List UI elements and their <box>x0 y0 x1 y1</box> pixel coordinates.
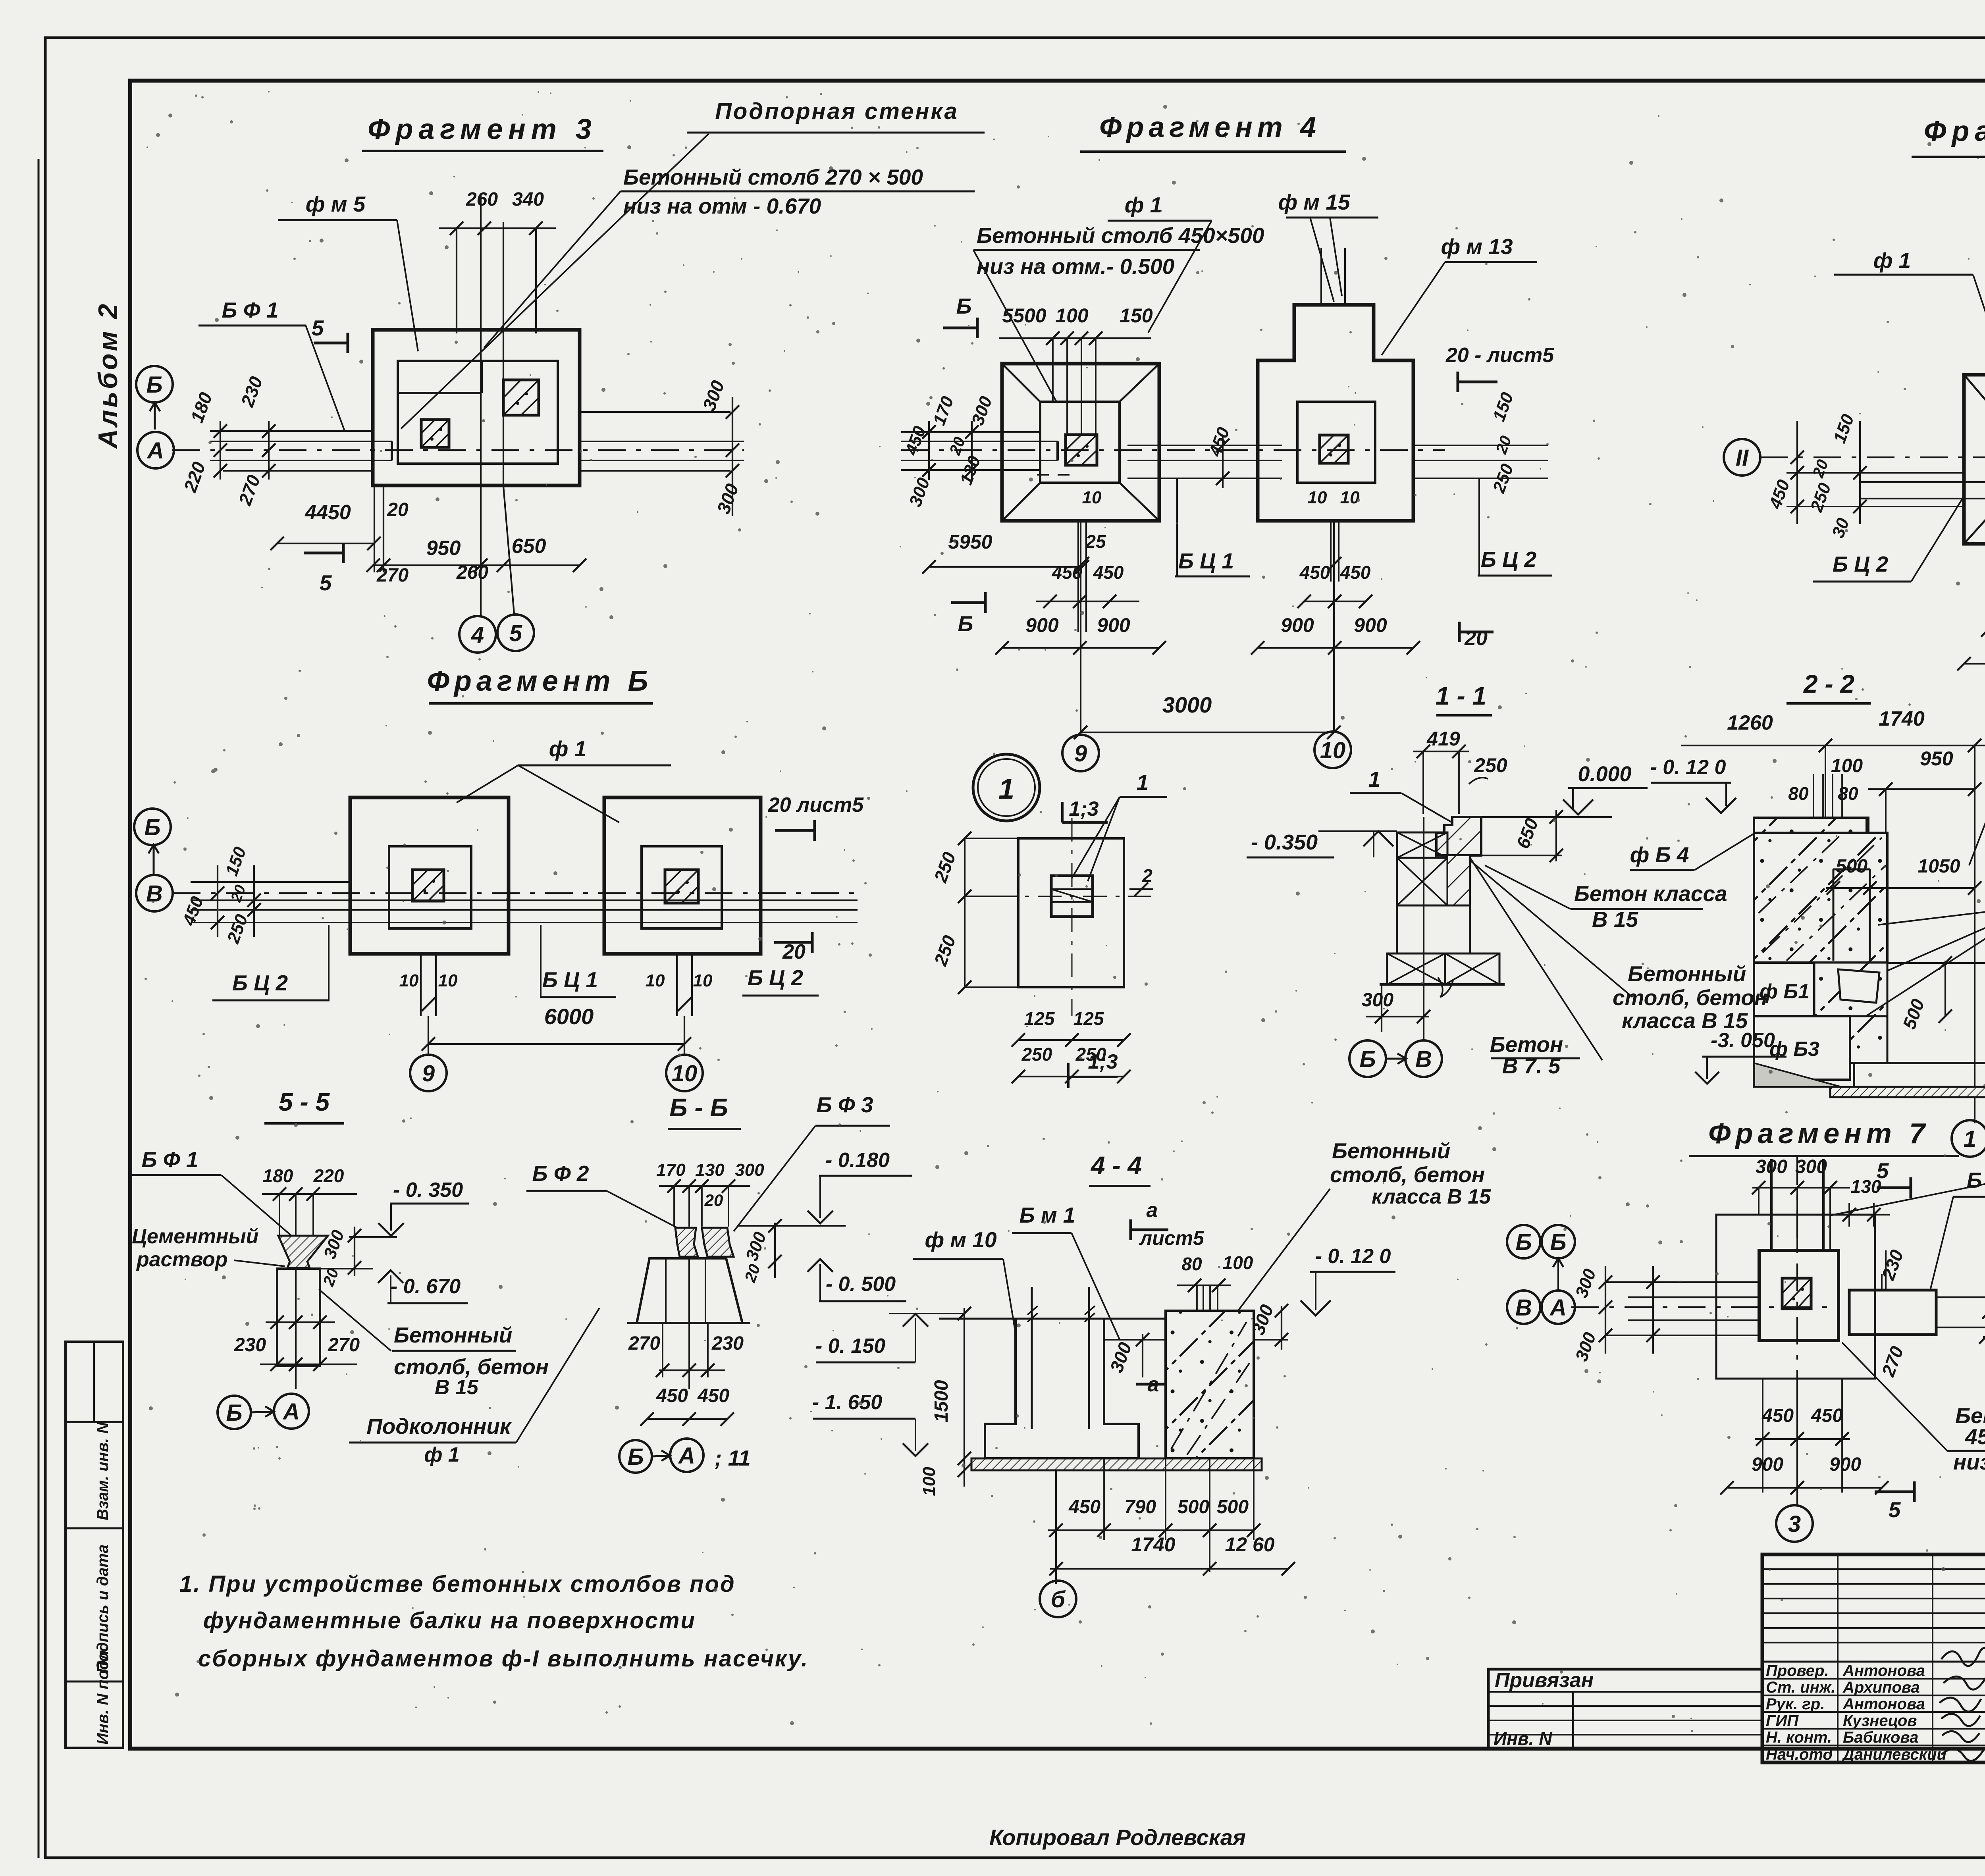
chamfer inner <box>1040 402 1120 483</box>
svg-text:500: 500 <box>1836 856 1867 877</box>
svg-text:80: 80 <box>1838 783 1858 804</box>
svg-text:10: 10 <box>1308 488 1327 507</box>
right dim 300 300 <box>732 397 733 516</box>
svg-text:419: 419 <box>1426 728 1460 750</box>
svg-text:-3. 050: -3. 050 <box>1711 1029 1775 1052</box>
base slab <box>971 1458 1262 1470</box>
svg-text:Инв. N: Инв. N <box>1494 1728 1552 1749</box>
svg-text:3000: 3000 <box>1162 692 1212 717</box>
beam right <box>1413 445 1548 446</box>
svg-text:Инв. N подл.: Инв. N подл. <box>94 1646 112 1745</box>
right beam lines <box>580 411 730 413</box>
svg-text:Б - Б: Б - Б <box>669 1093 728 1122</box>
svg-text:Б Ф 2: Б Ф 2 <box>532 1161 589 1186</box>
wall top slab <box>1754 818 1867 833</box>
svg-text:230: 230 <box>711 1333 744 1354</box>
axis circle 10 <box>666 1055 703 1091</box>
axis A dash <box>901 449 1445 451</box>
pad <box>1782 1278 1811 1309</box>
svg-text:300: 300 <box>1362 990 1393 1011</box>
circles Б В <box>1349 1040 1386 1077</box>
svg-text:100: 100 <box>1055 304 1089 327</box>
bottom hatched strip <box>1830 1087 1985 1097</box>
svg-text:450: 450 <box>1299 562 1330 583</box>
svg-text:180: 180 <box>263 1165 293 1186</box>
dash-dot overlay <box>1763 838 1882 953</box>
middle beam БЦ1 <box>1127 445 1282 446</box>
svg-text:В: В <box>1415 1046 1432 1072</box>
svg-text:Архипова: Архипова <box>1842 1679 1920 1696</box>
svg-text:Фрагмент Б: Фрагмент Б <box>427 665 653 697</box>
svg-text:20 - лист5: 20 - лист5 <box>1445 344 1554 367</box>
svg-text:10: 10 <box>693 971 713 990</box>
svg-text:450: 450 <box>1052 562 1083 583</box>
plan outer square <box>373 330 580 485</box>
dim ticks left <box>1605 1266 1606 1354</box>
svg-text:Б Ф 3: Б Ф 3 <box>816 1092 873 1117</box>
svg-text:450 × 500: 450 × 500 <box>1965 1424 1985 1449</box>
svg-text:ГИП: ГИП <box>1766 1712 1799 1730</box>
pad <box>1066 435 1097 465</box>
column pad B <box>503 380 539 415</box>
svg-text:Бетонный столб 450×500: Бетонный столб 450×500 <box>977 223 1264 248</box>
svg-text:Б: Б <box>956 294 972 318</box>
svg-text:Бетонный: Бетонный <box>1628 961 1746 986</box>
svg-text:фундаментные балки на п: фундаментные балки на поверхности <box>203 1608 696 1633</box>
inner slot lines <box>1833 869 1835 961</box>
svg-text:раствор: раствор <box>136 1248 227 1271</box>
svg-text:1500: 1500 <box>931 1380 952 1422</box>
svg-text:170: 170 <box>656 1160 686 1180</box>
svg-text:Б Ц 2: Б Ц 2 <box>1833 552 1889 576</box>
svg-text:ф 1: ф 1 <box>1125 193 1162 217</box>
beam shoe hatched <box>278 1236 328 1268</box>
svg-text:Фрагмент 4: Фрагмент 4 <box>1099 112 1321 143</box>
svg-text:- 1. 650: - 1. 650 <box>812 1391 882 1414</box>
axis line 4 <box>480 195 482 615</box>
svg-text:лист5: лист5 <box>1139 1227 1204 1249</box>
svg-text:А: А <box>146 438 164 464</box>
svg-text:Ст. инж.: Ст. инж. <box>1766 1679 1835 1696</box>
svg-text:ф м 5: ф м 5 <box>306 192 366 216</box>
svg-text:Б Ф 1: Б Ф 1 <box>141 1147 198 1172</box>
main title block <box>1762 1554 1985 1762</box>
leader to column pad <box>484 191 621 348</box>
right plan square <box>604 797 761 954</box>
beam lines <box>191 881 350 883</box>
svg-text:10: 10 <box>1320 738 1346 763</box>
ФБ1 white block <box>1754 963 1814 1016</box>
svg-text:ф 1: ф 1 <box>549 736 587 761</box>
svg-text:3: 3 <box>1788 1511 1801 1537</box>
left stamp boxes <box>66 1342 123 1748</box>
axis circle 11 <box>1724 439 1760 476</box>
axis circle Б <box>136 366 173 403</box>
leader <box>973 250 1056 401</box>
svg-text:10: 10 <box>1082 488 1102 507</box>
dim line mid <box>266 1321 335 1323</box>
svg-text:столб, бетон: столб, бетон <box>1613 985 1767 1010</box>
left rotated dims 150 450 20 250 <box>217 865 218 937</box>
leader to retaining wall <box>401 134 709 429</box>
svg-text:Бетонный: Бетонный <box>394 1323 512 1347</box>
svg-text:260: 260 <box>456 562 488 583</box>
svg-text:900: 900 <box>1025 614 1059 636</box>
svg-text:Б Ц 2: Б Ц 2 <box>232 971 288 995</box>
svg-text:ф м 15: ф м 15 <box>1278 190 1350 214</box>
svg-text:Антонова: Антонова <box>1842 1662 1925 1680</box>
axis circles Б Б В А <box>1507 1225 1540 1258</box>
axis circle 9 <box>1080 732 1081 734</box>
svg-text:260: 260 <box>466 189 498 210</box>
svg-text:Альбом 2: Альбом 2 <box>93 302 123 449</box>
svg-text:20: 20 <box>782 940 806 963</box>
svg-text:а: а <box>1147 1199 1158 1222</box>
break squiggle <box>1438 977 1453 997</box>
svg-text:5 - 5: 5 - 5 <box>279 1088 330 1116</box>
svg-text:Б: Б <box>958 611 973 636</box>
svg-text:250: 250 <box>1021 1044 1052 1065</box>
svg-text:10: 10 <box>399 971 419 990</box>
svg-text:Бабикова: Бабикова <box>1843 1729 1918 1746</box>
wall stub lines <box>1320 248 1322 305</box>
beam from left <box>1605 1281 1759 1283</box>
left beam dims 180 230 220 270 <box>220 421 221 480</box>
circle 3 <box>1796 1381 1798 1505</box>
svg-text:270: 270 <box>328 1335 360 1356</box>
pad <box>1320 435 1348 463</box>
svg-text:450: 450 <box>1068 1497 1100 1518</box>
svg-text:- 0. 12 0: - 0. 12 0 <box>1650 756 1726 779</box>
svg-text:1: 1 <box>1368 767 1381 792</box>
outer rect <box>1716 1215 1875 1379</box>
svg-text:- 0. 150: - 0. 150 <box>815 1335 885 1358</box>
svg-text:сборных фундаментов ф: сборных фундаментов ф-I выполнить насечк… <box>198 1646 809 1672</box>
left foundation outer <box>1002 364 1159 521</box>
svg-text:Копировал Родлевская: Копировал Родлевская <box>989 1825 1246 1850</box>
svg-text:Привязан: Привязан <box>1495 1669 1594 1692</box>
middle plain block <box>1397 905 1470 953</box>
axis B dash <box>173 892 858 894</box>
circle б <box>1040 1581 1076 1617</box>
svg-text:1: 1 <box>1964 1126 1976 1152</box>
axis vertical <box>1423 817 1424 1040</box>
svg-text:ф 1: ф 1 <box>424 1443 459 1466</box>
svg-text:250: 250 <box>1474 754 1507 776</box>
right foundation outline with stub <box>1258 305 1413 521</box>
svg-text:6000: 6000 <box>544 1004 594 1029</box>
svg-text:1740: 1740 <box>1131 1533 1175 1556</box>
sand wedge <box>1754 1063 1841 1087</box>
rebar dowels <box>1031 1287 1033 1429</box>
privyazan table <box>1488 1669 1762 1749</box>
svg-text:- 0.350: - 0.350 <box>1251 830 1318 854</box>
svg-text:Б Ц 1: Б Ц 1 <box>1178 549 1234 573</box>
svg-text:столб, бетон: столб, бетон <box>394 1354 549 1379</box>
hatched column <box>1166 1311 1254 1458</box>
svg-text:950: 950 <box>426 537 461 560</box>
svg-text:4450: 4450 <box>304 501 351 524</box>
svg-text:4 - 4: 4 - 4 <box>1090 1151 1142 1180</box>
svg-text:В: В <box>1515 1295 1532 1321</box>
column pad A <box>421 420 449 447</box>
svg-text:Фрагмент 5: Фрагмент 5 <box>1924 116 1985 147</box>
svg-text:80: 80 <box>1181 1254 1202 1274</box>
axis A dash line <box>172 449 744 451</box>
circles Б А <box>218 1396 251 1429</box>
svg-text:Б Ц 2: Б Ц 2 <box>1481 547 1537 572</box>
svg-text:1. При устройстве бетонных: 1. При устройстве бетонных столбов под <box>179 1571 736 1597</box>
svg-text:; 11: ; 11 <box>715 1446 751 1470</box>
svg-text:низ на отм.- 0.670: низ на отм.- 0.670 <box>1953 1450 1985 1474</box>
beam from left <box>901 431 1040 433</box>
axis dash vertical <box>1796 1157 1798 1381</box>
svg-text:Рук. гр.: Рук. гр. <box>1766 1695 1825 1713</box>
svg-text:Б ф 1: Б ф 1 <box>1967 1168 1985 1192</box>
svg-text:1;3: 1;3 <box>1069 797 1098 821</box>
svg-text:130: 130 <box>1851 1176 1881 1197</box>
svg-text:790: 790 <box>1124 1497 1156 1518</box>
bottom footing <box>1854 1063 1985 1087</box>
svg-text:А: А <box>678 1443 695 1469</box>
footing X blocks <box>1387 953 1445 984</box>
svg-text:Фрагмент 3: Фрагмент 3 <box>368 114 597 145</box>
ground top line <box>939 1318 1166 1320</box>
svg-text:Б: Б <box>1550 1229 1566 1255</box>
axis circle 4 <box>459 616 496 653</box>
svg-text:1: 1 <box>1137 770 1149 795</box>
svg-text:Данилевский: Данилевский <box>1842 1746 1946 1763</box>
svg-text:125: 125 <box>1073 1008 1104 1029</box>
svg-text:Бетон: Бетон <box>1490 1032 1563 1057</box>
svg-text:900: 900 <box>1354 614 1387 636</box>
form box <box>985 1318 1139 1458</box>
center lines <box>1072 818 1073 1016</box>
node 1 big circle <box>973 754 1040 821</box>
svg-text:10: 10 <box>672 1061 698 1086</box>
svg-text:Бетон класса: Бетон класса <box>1574 881 1727 906</box>
svg-text:б: б <box>1051 1587 1066 1612</box>
svg-text:Провер.: Провер. <box>1766 1662 1829 1680</box>
beam end cross-section <box>1051 876 1093 917</box>
svg-text:1: 1 <box>998 773 1014 805</box>
svg-text:Бетонный столб 270 × 500: Бетонный столб 270 × 500 <box>623 165 923 189</box>
svg-text:Нач.отд: Нач.отд <box>1766 1746 1833 1763</box>
svg-text:125: 125 <box>1024 1008 1055 1029</box>
svg-text:5: 5 <box>312 316 324 340</box>
signatures squiggles <box>1939 1648 1985 1761</box>
plan outer <box>1964 375 1985 544</box>
svg-text:130: 130 <box>695 1160 725 1180</box>
svg-text:450: 450 <box>1340 562 1371 583</box>
svg-text:9: 9 <box>422 1061 435 1086</box>
inner square <box>1297 402 1375 483</box>
svg-text:20: 20 <box>1464 627 1488 650</box>
svg-text:0.000: 0.000 <box>1578 762 1631 786</box>
svg-text:1050: 1050 <box>1918 856 1960 877</box>
svg-text:500: 500 <box>1217 1497 1249 1518</box>
svg-text:900: 900 <box>1829 1454 1861 1475</box>
svg-text:450: 450 <box>1093 562 1124 583</box>
circle 1 below <box>1974 1120 1975 1123</box>
svg-text:ф 1: ф 1 <box>1873 248 1911 273</box>
svg-text:Б Ц 1: Б Ц 1 <box>542 967 598 992</box>
svg-text:Б: Б <box>627 1444 644 1470</box>
left rotated dims <box>1796 421 1798 524</box>
shoes hatched <box>675 1228 698 1257</box>
svg-text:5: 5 <box>509 620 522 646</box>
svg-text:Цементный: Цементный <box>132 1225 258 1248</box>
svg-text:Б м 1: Б м 1 <box>1019 1203 1075 1227</box>
svg-text:- 0. 350: - 0. 350 <box>393 1179 463 1202</box>
svg-text:450: 450 <box>697 1385 729 1406</box>
svg-text:Н. конт.: Н. конт. <box>1766 1729 1832 1746</box>
big leader diagonal <box>1470 858 1602 1060</box>
axis circle 10 <box>1333 731 1335 732</box>
svg-text:2 - 2: 2 - 2 <box>1803 670 1854 698</box>
beam БФ1 lines <box>210 430 374 432</box>
X block 1 <box>1397 832 1447 858</box>
plan inner square <box>398 361 558 464</box>
svg-text:20: 20 <box>704 1191 723 1210</box>
svg-text:- 0. 500: - 0. 500 <box>826 1273 896 1296</box>
svg-text:340: 340 <box>512 189 544 210</box>
svg-text:1;3: 1;3 <box>1088 1050 1118 1073</box>
svg-text:Б: Б <box>144 815 160 840</box>
svg-text:Антонова: Антонова <box>1842 1695 1925 1713</box>
hatched strip right of ФБ1 <box>1814 963 1887 1016</box>
svg-text:950: 950 <box>1920 747 1953 770</box>
svg-text:270: 270 <box>628 1333 660 1354</box>
svg-text:450: 450 <box>656 1385 688 1406</box>
svg-text:25: 25 <box>1085 531 1106 552</box>
svg-text:20 лист5: 20 лист5 <box>768 794 864 817</box>
svg-text:20: 20 <box>387 499 409 520</box>
svg-text:230: 230 <box>234 1335 266 1356</box>
circles Б А <box>619 1440 652 1473</box>
svg-text:Б: Б <box>1359 1046 1376 1072</box>
hatched column top <box>1436 817 1481 855</box>
left scan edge line <box>38 159 40 1858</box>
svg-text:В 15: В 15 <box>435 1376 479 1399</box>
svg-text:В: В <box>146 881 163 907</box>
axis dash <box>1760 456 1985 458</box>
ФБ3 white block <box>1754 1016 1850 1080</box>
axis circle Б <box>134 809 171 845</box>
svg-text:12 60: 12 60 <box>1225 1533 1274 1556</box>
svg-text:ф м 13: ф м 13 <box>1441 234 1513 259</box>
axis circle В <box>136 875 173 911</box>
axis A dash <box>1571 1306 1838 1308</box>
svg-text:500: 500 <box>1178 1497 1209 1518</box>
svg-text:270: 270 <box>376 565 409 586</box>
svg-text:5500: 5500 <box>1002 304 1046 327</box>
svg-text:- 0. 12 0: - 0. 12 0 <box>1315 1245 1391 1268</box>
svg-text:5: 5 <box>320 570 332 595</box>
svg-text:Б: Б <box>226 1400 242 1426</box>
svg-text:900: 900 <box>1281 614 1314 636</box>
beam БФ1 right <box>1849 1290 1936 1335</box>
svg-text:900: 900 <box>1752 1454 1783 1475</box>
svg-text:450: 450 <box>1811 1405 1843 1426</box>
svg-text:Подпорная стенка: Подпорная стенка <box>715 98 959 124</box>
svg-text:Б Ф 1: Б Ф 1 <box>222 298 278 322</box>
svg-text:II: II <box>1736 445 1749 471</box>
svg-text:80: 80 <box>1788 783 1809 804</box>
svg-text:4: 4 <box>471 622 484 648</box>
svg-text:650: 650 <box>512 535 546 558</box>
svg-text:1 - 1: 1 - 1 <box>1436 682 1486 710</box>
svg-text:100: 100 <box>1223 1252 1253 1273</box>
svg-text:- 0. 670: - 0. 670 <box>391 1275 461 1298</box>
svg-text:Фрагмент 7: Фрагмент 7 <box>1708 1118 1930 1150</box>
svg-text:Подколонник: Подколонник <box>366 1414 512 1439</box>
svg-text:ф Б 4: ф Б 4 <box>1630 842 1689 867</box>
svg-text:9: 9 <box>1074 741 1087 767</box>
axis circle 5 <box>497 614 534 651</box>
svg-text:низ на отм - 0.670: низ на отм - 0.670 <box>623 194 821 218</box>
wall body hatched <box>1754 818 1887 963</box>
svg-text:10: 10 <box>646 971 665 990</box>
svg-text:столб, бетон: столб, бетон <box>1330 1162 1485 1187</box>
axis circle 9 <box>410 1055 447 1091</box>
svg-text:100: 100 <box>919 1467 939 1496</box>
svg-text:Б: Б <box>1515 1229 1532 1255</box>
left plan square <box>350 797 509 954</box>
svg-text:450: 450 <box>1761 1405 1794 1426</box>
svg-text:А: А <box>1549 1295 1567 1321</box>
svg-text:класса В 15: класса В 15 <box>1372 1185 1491 1208</box>
svg-text:низ на отм.- 0.500: низ на отм.- 0.500 <box>977 254 1175 279</box>
svg-text:10: 10 <box>1340 488 1360 507</box>
white quad hole <box>1838 969 1879 1003</box>
central square <box>1759 1250 1839 1341</box>
svg-text:1740: 1740 <box>1879 707 1925 730</box>
svg-text:1260: 1260 <box>1727 711 1773 734</box>
beam БЦ2 left lower <box>1786 472 1964 474</box>
svg-text:ф м 10: ф м 10 <box>925 1227 996 1252</box>
svg-text:Взам. инв. N: Взам. инв. N <box>94 1422 112 1520</box>
svg-text:220: 220 <box>313 1165 344 1186</box>
hatched strip right <box>1447 855 1470 905</box>
wall verticals <box>1770 1159 1773 1250</box>
svg-text:Бетонный: Бетонный <box>1332 1138 1450 1163</box>
dashes hidden <box>1037 474 1072 476</box>
svg-text:5: 5 <box>1889 1497 1901 1522</box>
svg-text:300: 300 <box>735 1160 764 1180</box>
svg-text:В 15: В 15 <box>1592 907 1639 932</box>
svg-text:10: 10 <box>438 971 458 990</box>
detail rect <box>1018 838 1124 987</box>
hatched part right of ФБ3 <box>1850 1016 1887 1063</box>
trapezoid pedestal <box>637 1258 742 1323</box>
inner step <box>398 392 482 394</box>
svg-text:Б Ц 2: Б Ц 2 <box>748 965 804 990</box>
X block 2 <box>1397 858 1447 905</box>
axis circle А <box>137 432 174 468</box>
svg-text:Кузнецов: Кузнецов <box>1843 1712 1917 1730</box>
svg-text:900: 900 <box>1097 614 1130 636</box>
svg-text:Б: Б <box>146 372 162 398</box>
left dims 250 250 <box>964 838 966 987</box>
svg-text:В 7. 5: В 7. 5 <box>1502 1054 1561 1078</box>
svg-text:- 0.180: - 0.180 <box>825 1149 890 1172</box>
pedestal <box>277 1269 320 1366</box>
svg-text:А: А <box>282 1399 300 1425</box>
wall line <box>503 222 504 486</box>
svg-text:150: 150 <box>1120 304 1153 327</box>
svg-text:100: 100 <box>1831 755 1863 776</box>
